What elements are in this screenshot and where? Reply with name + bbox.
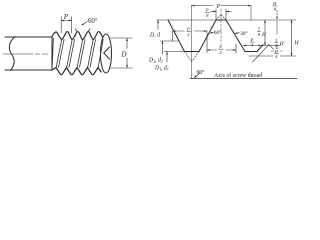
central tooth dashed apex	[216, 15, 221, 21]
5H/8 dimension line	[264, 20, 266, 46]
D1,d1 dimension	[166, 52, 168, 63]
H/4 upper arrow	[276, 45, 278, 50]
3/8H witness line	[276, 21, 278, 35]
end face thread V notch	[104, 47, 110, 59]
axis line	[190, 78, 297, 80]
P/2 dimension	[173, 30, 185, 32]
central tooth left flank	[199, 20, 216, 52]
P dimension line	[61, 20, 71, 22]
label P (left figure)	[63, 13, 129, 59]
label D (left figure)	[121, 49, 129, 58]
H/8 dashed leader	[276, 10, 278, 19]
thread crest zigzag bottom	[52, 68, 101, 75]
P/8 arrows	[211, 11, 217, 13]
90 degree leader arrow	[195, 74, 200, 78]
60 degree leader arrow (left figure)	[83, 22, 88, 25]
lambda root triangle	[253, 45, 281, 63]
pitch line left	[160, 40, 178, 42]
thread crest zigzag top	[52, 32, 103, 40]
svg-text:H: H	[261, 32, 267, 38]
apex bottom line	[249, 55, 296, 57]
label P/8 fraction	[205, 8, 209, 18]
svg-text:P: P	[205, 8, 209, 13]
root line extension left	[164, 51, 185, 53]
P/4 dimension arrows	[243, 45, 246, 47]
svg-text:30°: 30°	[240, 30, 248, 37]
svg-text:8: 8	[206, 13, 209, 18]
30 degree leader	[236, 32, 240, 34]
D,d dimension	[157, 20, 159, 30]
svg-text:D: D	[121, 51, 127, 59]
valley flank extensions	[75, 29, 77, 32]
central tooth crest flat	[216, 19, 226, 21]
P dimension line	[192, 5, 214, 7]
break S-curve	[9, 37, 15, 71]
svg-text:P: P	[218, 45, 222, 50]
svg-text:P: P	[63, 13, 69, 21]
svg-text:8: 8	[258, 32, 261, 37]
left flank of left groove	[168, 20, 185, 52]
root flat line right (5H/8 bottom reference, doubles as P/4 dim line)	[243, 45, 281, 47]
shaft top line	[5, 36, 52, 38]
label H/4 fraction	[274, 49, 281, 59]
label inner P/2 fraction	[218, 45, 224, 55]
svg-text:2: 2	[187, 32, 190, 37]
central tooth dashed centerline	[220, 9, 222, 52]
D dimension extension lines	[110, 37, 133, 39]
P/8 extension lines	[215, 9, 217, 19]
label P/4 fraction	[250, 37, 254, 47]
svg-text:H: H	[272, 1, 277, 6]
svg-text:D, d: D, d	[149, 33, 160, 39]
right P extension line	[250, 6, 252, 21]
60 degree leader (right figure)	[211, 32, 214, 33]
right groove root flat	[245, 51, 257, 53]
svg-text:60°: 60°	[214, 29, 222, 36]
shaft bottom line	[5, 69, 52, 71]
svg-text:5: 5	[258, 27, 261, 32]
H total dimension	[291, 20, 293, 56]
centerline	[3, 53, 49, 55]
svg-text:D2, d2: D2, d2	[148, 58, 163, 64]
svg-text:H: H	[279, 41, 285, 47]
label 3/8 H fraction	[275, 38, 285, 48]
P dimension extension lines	[60, 17, 62, 34]
left groove centerline	[191, 6, 193, 79]
left groove root flat	[185, 51, 200, 53]
groove flat level stub right	[271, 50, 282, 52]
svg-text:60°: 60°	[88, 18, 98, 25]
major diameter reference line	[157, 19, 296, 21]
svg-text:4: 4	[251, 42, 254, 47]
left groove dashed apex V	[185, 52, 192, 62]
central tooth right flank	[226, 20, 245, 52]
svg-text:Axis of screw thread: Axis of screw thread	[214, 72, 262, 79]
svg-text:P: P	[186, 27, 190, 32]
label P/2 fraction	[186, 27, 190, 37]
svg-text:H: H	[293, 41, 299, 47]
label 5/8 H fraction	[258, 27, 268, 39]
D dimension line with arrows	[126, 38, 128, 68]
D2,d2 dimension	[162, 41, 164, 54]
inner P/2 dimension line	[207, 49, 217, 51]
right groove right flank	[257, 45, 263, 52]
label H/8 fraction	[272, 1, 277, 11]
svg-text:D1, d1: D1, d1	[154, 66, 169, 72]
end face ellipse	[101, 34, 112, 73]
svg-text:8: 8	[274, 6, 277, 11]
svg-text:90°: 90°	[197, 69, 206, 76]
thread root helix lines	[52, 38, 53, 64]
inner P/2 extension line right	[235, 44, 237, 53]
shoulder	[51, 37, 53, 70]
svg-text:P: P	[216, 3, 221, 10]
